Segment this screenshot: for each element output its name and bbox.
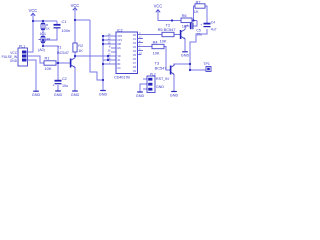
- svg-text:100n: 100n: [62, 28, 71, 33]
- svg-text:CD4017B: CD4017B: [114, 76, 130, 80]
- svg-text:10K: 10K: [45, 66, 52, 71]
- svg-text:O3: O3: [133, 46, 137, 49]
- wire VCC2 drop x90: [90, 20, 103, 80]
- wire node A0 down to base net: [43, 46, 58, 80]
- wire T2 collector riser: [185, 26, 189, 30]
- wire connector pin2 to R1: [28, 56, 44, 63]
- IC2 right pin stubs: [138, 35, 144, 55]
- wire C5 staircase down: [190, 29, 207, 64]
- svg-text:VCC: VCC: [71, 3, 80, 8]
- svg-text:GND: GND: [136, 94, 145, 98]
- svg-text:+: +: [186, 24, 188, 28]
- svg-text:BC547: BC547: [164, 27, 176, 32]
- svg-text:1K: 1K: [78, 49, 83, 53]
- svg-text:10u: 10u: [62, 84, 68, 88]
- capacitor C1: [54, 19, 71, 33]
- svg-text:O0: O0: [133, 34, 137, 37]
- svg-text:O9: O9: [133, 70, 137, 73]
- power VCC1 symbol: [31, 13, 35, 16]
- svg-text:16: 16: [108, 49, 111, 53]
- IC2 interior pin names right: [133, 34, 137, 73]
- IC IC2 CD4017B: [114, 29, 138, 80]
- svg-text:10u: 10u: [196, 33, 202, 37]
- wire T3 collector up and right: [174, 64, 190, 66]
- svg-text:GND: GND: [10, 59, 18, 63]
- svg-text:R7: R7: [196, 0, 201, 4]
- svg-text:PL2: PL2: [150, 73, 156, 77]
- svg-text:1K: 1K: [194, 9, 199, 14]
- wire jog x108: [107, 56, 109, 60]
- svg-text:O5: O5: [133, 54, 137, 57]
- svg-text:GND: GND: [181, 54, 190, 58]
- wire PL2 pin stubs: [143, 79, 147, 89]
- connector PL1: [18, 45, 28, 67]
- svg-text:MR: MR: [118, 44, 122, 46]
- wire bus stub row64: [103, 63, 111, 65]
- svg-text:+: +: [200, 23, 202, 27]
- capacitor C2: [53, 77, 69, 88]
- svg-text:C2: C2: [62, 77, 67, 81]
- IC1 upper element: [41, 23, 50, 31]
- svg-text:O8: O8: [133, 66, 137, 69]
- svg-text:O4: O4: [133, 50, 137, 53]
- wire bus stub row60: [103, 59, 111, 61]
- wire R6 to node: [192, 20, 197, 22]
- svg-text:CP0: CP0: [118, 36, 123, 38]
- wire C2 to GND: [57, 85, 59, 91]
- IC2 left pin numbers: [108, 33, 111, 65]
- wire bus left of IC: [102, 36, 104, 91]
- power VCC3 symbol: [156, 10, 160, 13]
- svg-text:4u7: 4u7: [211, 27, 217, 31]
- transistor T3: [155, 61, 174, 75]
- svg-text:GND: GND: [32, 93, 41, 97]
- svg-text:R4: R4: [153, 40, 159, 45]
- ground symbol 6: [170, 92, 179, 98]
- svg-text:C1: C1: [62, 19, 67, 24]
- wire R7 left lead drop: [194, 6, 196, 21]
- svg-text:O7: O7: [133, 62, 137, 65]
- svg-text:BC547: BC547: [57, 50, 69, 55]
- svg-text:10K: 10K: [160, 38, 167, 43]
- power VCC2 symbol: [73, 8, 77, 11]
- ground symbol 4: [99, 91, 108, 97]
- svg-text:VD: VD: [118, 56, 122, 58]
- svg-text:R2: R2: [78, 44, 83, 48]
- connector PL2: [147, 73, 169, 93]
- wire R5 to T2 base: [174, 34, 180, 36]
- svg-text:GND: GND: [99, 92, 108, 96]
- svg-text:BC547: BC547: [155, 66, 167, 71]
- svg-text:GND: GND: [54, 93, 63, 97]
- wire T1 emitter to GND: [74, 67, 76, 91]
- svg-text:GND: GND: [71, 93, 80, 97]
- svg-text:C4: C4: [211, 21, 215, 25]
- svg-text:15: 15: [139, 52, 142, 56]
- svg-text:TP1: TP1: [203, 62, 210, 66]
- wire R2 top lead: [74, 20, 76, 43]
- wire bus stub row40: [103, 39, 111, 41]
- wire R1 to T1 base: [56, 62, 70, 64]
- svg-text:IC2: IC2: [117, 29, 123, 33]
- wire junction to TP1: [190, 64, 206, 70]
- wire T3 emitter to GND: [173, 75, 175, 92]
- junction dots: [32, 19, 195, 81]
- svg-text:PL1: PL1: [19, 45, 25, 49]
- svg-text:R5: R5: [158, 27, 163, 32]
- wire IC pin3 to R5: [143, 34, 162, 36]
- svg-text:IC1: IC1: [40, 31, 46, 36]
- wire R7 right to C5: [205, 6, 207, 23]
- svg-text:(A0): (A0): [38, 48, 45, 52]
- ground symbol 2: [54, 91, 63, 97]
- connector PL1 net labels: [2, 51, 18, 63]
- wire VCC1 down to connector pin1: [28, 21, 33, 52]
- IC2 left pin stubs: [111, 36, 116, 64]
- svg-text:8: 8: [109, 45, 111, 49]
- resistor R2: [73, 43, 83, 53]
- wire T2 emitter down: [184, 40, 186, 52]
- svg-text:B0: B0: [118, 64, 122, 66]
- ground symbol 7: [181, 52, 190, 58]
- svg-text:GND: GND: [170, 93, 179, 97]
- svg-text:R6: R6: [182, 13, 187, 18]
- wire bus stub row36: [103, 35, 111, 37]
- resistor R5: [158, 27, 174, 43]
- svg-text:A1: A1: [118, 59, 122, 62]
- svg-text:GND: GND: [156, 85, 164, 89]
- wire connector pin3 to GND: [28, 60, 36, 91]
- wire VCC1 rail top-left: [33, 14, 57, 21]
- ground symbol 1: [32, 91, 41, 97]
- svg-text:O6: O6: [133, 58, 137, 61]
- transistor T2: [164, 22, 185, 39]
- svg-text:VCC: VCC: [29, 8, 38, 13]
- wire IC pin to R4: [143, 46, 152, 48]
- wire C1 bottom lead to IC1 node: [43, 28, 57, 40]
- wire VCC3 rail: [158, 10, 181, 21]
- ground symbol 3: [71, 91, 80, 97]
- svg-text:O2: O2: [133, 42, 137, 45]
- svg-text:VCC: VCC: [154, 3, 163, 8]
- svg-text:RST_IN: RST_IN: [156, 77, 169, 81]
- svg-text:U0: U0: [118, 68, 122, 70]
- wire IC1 vertical branch: [42, 21, 44, 46]
- resistor R7: [194, 0, 205, 14]
- svg-text:1K: 1K: [46, 27, 50, 31]
- svg-text:+: +: [53, 84, 55, 88]
- svg-text:10K: 10K: [153, 50, 160, 55]
- IC2 interior pin names left: [118, 36, 123, 70]
- wire bus stub row44: [103, 43, 111, 45]
- wire C4a right riser: [194, 21, 198, 27]
- testpoint TP1: [203, 62, 211, 71]
- ground symbol 5: [136, 92, 145, 98]
- wire T1 collector node to IC pin: [75, 55, 111, 57]
- capacitor C5: [186, 23, 202, 37]
- resistor R6: [181, 13, 192, 29]
- wire PL2 pin2 to GND: [140, 84, 143, 92]
- svg-text:CP1: CP1: [118, 40, 123, 42]
- wire R4 to T3 base: [164, 47, 170, 71]
- capacitor C4: [200, 21, 216, 32]
- svg-text:O1: O1: [133, 38, 137, 41]
- IC2 right pin numbers: [139, 32, 142, 56]
- wire VCC2 rail: [75, 9, 90, 20]
- resistor R4: [152, 40, 164, 56]
- svg-text:EN: EN: [118, 48, 122, 50]
- resistor R1: [44, 56, 56, 71]
- IC1 lower element: [39, 36, 51, 42]
- svg-text:R1: R1: [45, 56, 50, 61]
- svg-text:4M: 4M: [46, 37, 51, 41]
- wire R2 bottom to node: [74, 52, 76, 56]
- transistor T1: [57, 45, 75, 68]
